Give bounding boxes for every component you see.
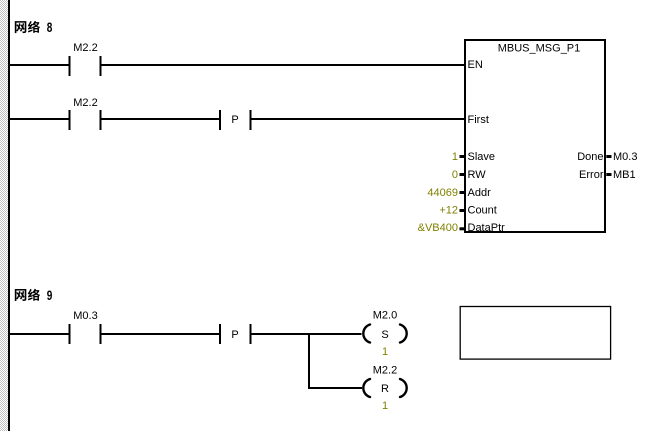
coil R (M2.2) left paren — [363, 379, 370, 397]
svg-text:P: P — [231, 114, 238, 126]
svg-text:RW: RW — [468, 169, 487, 181]
svg-text:M0.3: M0.3 — [613, 151, 637, 163]
contact P (rung2) left bar — [219, 110, 221, 130]
network 8 label 络 — [28, 21, 40, 33]
wire rung3 contact to P contact — [102, 333, 220, 335]
tick Addr input — [460, 191, 465, 194]
svg-text:+12: +12 — [439, 205, 458, 217]
wire rung1 rail to contact M2.2 — [10, 64, 69, 66]
svg-text:Addr: Addr — [468, 187, 492, 199]
svg-text:MBUS_MSG_P1: MBUS_MSG_P1 — [498, 43, 581, 55]
svg-text:M0.3: M0.3 — [73, 310, 97, 322]
wire rung3 rail to contact M0.3 — [10, 333, 69, 335]
function block MBUS_MSG_P1 box — [465, 40, 605, 232]
coil R (M2.2) right paren — [400, 379, 407, 397]
network 9 label 络 — [28, 289, 40, 301]
wire rung2 P contact to First — [252, 118, 466, 120]
left power rail — [8, 0, 10, 431]
tick Error output — [606, 173, 611, 176]
svg-text:P: P — [231, 329, 238, 341]
contact M0.3 right bar — [100, 324, 102, 344]
svg-text:M2.2: M2.2 — [73, 42, 97, 54]
svg-text:R: R — [381, 383, 389, 395]
svg-text:&VB400: &VB400 — [418, 222, 458, 234]
wire rung2 contact to P contact — [102, 118, 220, 120]
contact M2.2 (rung2) left bar — [69, 110, 71, 130]
svg-text:S: S — [381, 329, 388, 341]
svg-text:9: 9 — [47, 287, 53, 303]
svg-text:44069: 44069 — [427, 187, 458, 199]
tick RW input — [460, 173, 465, 176]
svg-text:MB1: MB1 — [613, 169, 636, 181]
wire rung1 contact to EN — [102, 64, 466, 66]
branch junction vertical wire — [308, 333, 310, 389]
wire branch to R coil — [310, 387, 362, 389]
svg-text:8: 8 — [47, 19, 53, 35]
svg-text:First: First — [468, 114, 489, 126]
svg-text:Done: Done — [577, 151, 603, 163]
svg-text:EN: EN — [468, 59, 483, 71]
svg-text:Slave: Slave — [468, 151, 496, 163]
tick Count input — [460, 209, 465, 212]
contact P (rung3) left bar — [219, 324, 221, 344]
contact M0.3 left bar — [69, 324, 71, 344]
svg-text:M2.2: M2.2 — [373, 365, 397, 377]
tick DataPtr input — [460, 227, 465, 230]
svg-text:1: 1 — [382, 400, 388, 412]
wire rung2 rail to contact M2.2 — [10, 118, 69, 120]
tick Slave input — [460, 155, 465, 158]
network 8 label 网 — [15, 21, 27, 33]
svg-text:M2.2: M2.2 — [73, 97, 97, 109]
svg-text:DataPtr: DataPtr — [468, 222, 506, 234]
contact P (rung2) right bar — [250, 110, 252, 130]
svg-text:Count: Count — [468, 205, 497, 217]
svg-text:0: 0 — [452, 169, 458, 181]
coil S (M2.0) left paren — [363, 325, 370, 343]
left margin dither strip — [0, 0, 8, 431]
wire rung3 P contact to S coil — [252, 333, 362, 335]
empty comment box — [460, 307, 610, 360]
tick Done output — [606, 155, 611, 158]
svg-text:1: 1 — [452, 151, 458, 163]
network 9 label 网 — [15, 289, 27, 301]
svg-text:1: 1 — [382, 346, 388, 358]
svg-text:M2.0: M2.0 — [373, 310, 397, 322]
svg-text:Error: Error — [579, 169, 604, 181]
contact M2.2 (rung1) right bar — [100, 56, 102, 76]
coil S (M2.0) right paren — [400, 325, 407, 343]
contact M2.2 (rung1) left bar — [69, 56, 71, 76]
contact P (rung3) right bar — [250, 324, 252, 344]
contact M2.2 (rung2) right bar — [100, 110, 102, 130]
